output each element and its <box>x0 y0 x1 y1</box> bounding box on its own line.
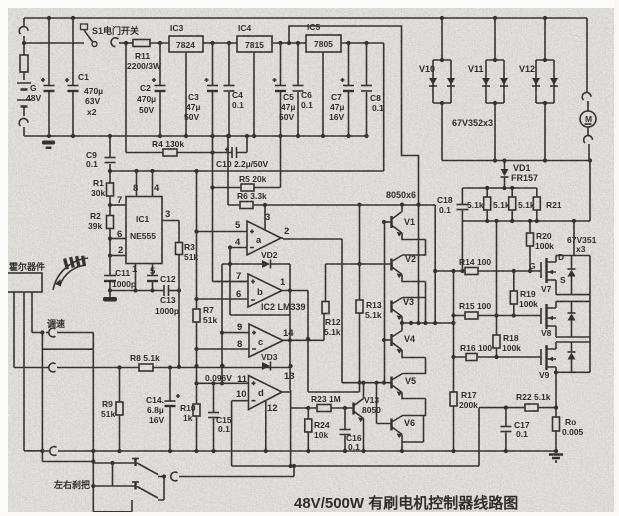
transistor V4 <box>393 323 403 337</box>
connector plug of S1 <box>111 38 118 47</box>
node dots on ground rail <box>47 134 51 138</box>
capacitor C15 0.1 column <box>213 383 215 451</box>
wire IC5 out 5V rail then down <box>341 42 384 44</box>
capacitor C16 0.1 column <box>344 408 346 451</box>
wire pin8 line <box>197 348 250 350</box>
wire comparator c output pin14 bus <box>283 314 324 341</box>
MOSFET V7 loop with body diode <box>556 256 590 295</box>
wire R8 throttle signal line <box>14 367 49 369</box>
resistor R20 100k <box>529 221 531 233</box>
transistor V5 <box>390 377 392 389</box>
page margins <box>0 0 8 516</box>
resistor R10 1k <box>193 404 200 416</box>
diode pair V10 <box>441 18 443 60</box>
resistor R6 3.3k line and riser <box>228 136 265 205</box>
diode VD3 <box>262 362 270 370</box>
capacitor C9 column <box>109 136 111 171</box>
node dots on top rail <box>47 16 51 20</box>
wire network feed down to gate line <box>461 221 463 271</box>
wire battery to lower plug <box>23 107 25 117</box>
capacitor C11 1000p <box>104 275 116 277</box>
wire V13 collector to driver bus <box>363 383 365 399</box>
connector plug bottom of battery <box>19 118 28 126</box>
wire battery positive column <box>23 18 25 80</box>
wire battery negative to ground rail <box>23 127 25 136</box>
comparator c of IC2 <box>249 324 283 357</box>
wire b feedback loop bottom <box>230 291 290 341</box>
wire left signal column x196 with R7 R10 <box>196 171 198 309</box>
wire comparator d plus line <box>197 382 249 384</box>
capacitor (C1 x2 first unit) column <box>48 18 50 136</box>
regulator IC4 7815 <box>237 36 272 52</box>
wire gate divider column x453 <box>453 271 455 392</box>
wire comparator a pin3 drop <box>264 205 266 230</box>
wire c d output tie column <box>289 340 291 390</box>
wire pin5 line <box>197 231 248 233</box>
wire center reference column x213 <box>212 136 214 282</box>
wire V5 emitter jog to V6 collector <box>393 393 426 422</box>
wire feedback column pin4 to VD2 line to loop <box>229 248 231 316</box>
wire R3 column down to VD3 line <box>178 291 180 367</box>
wire NE555 pin 1 <box>135 264 137 291</box>
resistor network top rail <box>462 187 536 189</box>
wire top +48V rail <box>24 17 587 19</box>
battery G 48V plates <box>17 83 31 100</box>
wire R1 to pin7 node <box>109 196 111 216</box>
wire speed node with plug loop <box>40 330 44 334</box>
capacitor C14 6.8u column <box>169 368 171 452</box>
ground blob below C11 <box>108 288 112 292</box>
capacitor C2 column <box>159 43 161 136</box>
switch S1 pull icon <box>81 24 88 30</box>
motor M <box>580 111 596 127</box>
comparator b of IC2 <box>248 274 282 307</box>
resistor 5.1k leg two <box>511 188 513 221</box>
wire Hall lead three to speed node <box>32 292 42 333</box>
wire driver base bus <box>342 382 392 384</box>
wire R2 to pin6 pin2 C11 <box>109 229 111 291</box>
connector plug above motor <box>582 92 591 100</box>
capacitor C6 column <box>297 43 299 136</box>
resistor R11 <box>133 40 150 47</box>
connector plug of brake <box>171 472 178 481</box>
resistor R19 100k column <box>513 271 515 291</box>
wire switched rail from battery <box>24 42 84 44</box>
capacitor C7 column <box>348 43 350 136</box>
wire b c output junction down to 392 <box>307 339 309 392</box>
wire left loop column x222 <box>221 264 223 383</box>
wire V4 emitter jog to V5 collector <box>393 350 426 380</box>
wire IC3 ground pin <box>185 52 187 136</box>
resistor R21 5.1k leg three <box>536 188 538 221</box>
wire comparator a output column to driver base bus <box>341 239 343 383</box>
wire VD2 line <box>222 264 290 291</box>
wire NE555 pin 8 and 4 <box>137 171 153 197</box>
wire NE555 pin 6 <box>110 238 126 240</box>
transistor V1 <box>390 216 392 228</box>
wire IC4 ground pin <box>253 52 255 136</box>
wire comparator a output pin2 to R13 column <box>281 238 342 239</box>
wire motor drain drop to first MOSFET loop <box>573 221 575 256</box>
connector plug of throttle <box>49 328 56 337</box>
comparator d of IC2 <box>249 376 283 410</box>
wire V1 emitter jog to V2 collector <box>393 233 426 261</box>
polarity mark <box>41 78 45 82</box>
resistor R18 100k column <box>496 221 498 335</box>
wire pin7 line <box>213 281 249 283</box>
resistor R22 5.1k <box>525 404 538 411</box>
transistor V6 <box>390 419 392 431</box>
wire V13 base line with R23 <box>291 407 354 409</box>
wire IC4 out to IC5 <box>272 42 306 44</box>
wire R4 line <box>126 152 232 154</box>
brake switch A <box>134 459 136 467</box>
resistor R4 130k feed column from switched rail <box>125 43 127 153</box>
comparator a of IC2 <box>247 221 281 255</box>
brake switch B <box>134 482 136 490</box>
diode VD2 <box>262 260 270 268</box>
wire motor feed from top rail <box>586 18 588 92</box>
transistor V3 <box>390 301 392 313</box>
resistor R1 30k <box>109 171 111 183</box>
wire ground bus rail <box>24 135 367 137</box>
wire comparator b plus input from column <box>213 281 249 283</box>
wire IC3 out to IC4 <box>203 42 237 44</box>
wire NE555 supply rail <box>110 170 384 172</box>
wire R3 down to C13 line <box>178 255 180 291</box>
wire NE555 pin 2 <box>110 255 126 257</box>
resistor R2 39k <box>107 216 114 229</box>
wire 5V column down to driver bus <box>383 43 385 171</box>
capacitor C10 series <box>232 147 237 158</box>
wire V9 gate line <box>454 356 542 358</box>
wire switch B feed <box>93 463 135 486</box>
wire pin9 line <box>222 332 249 334</box>
wire V2 emitter jog to V3 collector <box>393 275 426 324</box>
scan noise overlay <box>0 0 1 1</box>
polarity mark <box>65 78 69 82</box>
wire source bus down to R22 line <box>555 372 557 407</box>
wire comparator d output to V13 base line <box>282 390 291 466</box>
capacitor C1 column <box>72 18 74 136</box>
resistor Ro 0.005 shunt <box>555 408 557 417</box>
wire pin1 pin5 bottom bus <box>110 290 164 292</box>
connector plug top of battery <box>19 26 28 34</box>
switch S1 blade and pole <box>92 42 97 47</box>
wire V7 gate line <box>435 270 541 272</box>
regulator IC3 7824 <box>169 36 203 52</box>
wire pin10 loop down and right <box>232 401 479 466</box>
connector plug below motor <box>584 135 593 143</box>
resistor R24 10k column <box>307 408 309 419</box>
wire driver base column V1 V4 V5 <box>384 222 386 383</box>
regulator IC5 7805 <box>306 35 341 52</box>
transistor V2 <box>390 259 392 271</box>
wire R10 to ground line <box>196 416 198 451</box>
diode pair V11 <box>494 18 496 60</box>
wire main ground line <box>24 450 50 452</box>
wire NE555 pin 3 to R3 <box>162 221 179 243</box>
wire chain bus <box>402 322 454 324</box>
resistor R12 5.1k <box>322 302 329 314</box>
ground symbol at Ro <box>549 455 563 462</box>
resistor R15 100 <box>465 312 478 319</box>
fuse F <box>20 55 28 72</box>
resistor R7 51k <box>193 309 200 322</box>
wire pin6 line <box>197 298 249 300</box>
wire R13 bottom to driver bus <box>308 313 360 392</box>
wire comparator b output pin1 and loop <box>282 291 308 339</box>
wire speed column down <box>41 333 43 462</box>
wire Hall lead two to ground line <box>23 292 25 451</box>
capacitor C12 <box>147 275 158 277</box>
wire Hall lead one to throttle line <box>13 292 15 368</box>
wire pin12 to ground line <box>265 401 267 451</box>
wire long collector line to transistor chain <box>265 205 435 323</box>
wire V13 emitter to ground line <box>363 419 365 452</box>
ground symbol below rail left <box>42 141 55 145</box>
capacitor C17 0.1 column <box>505 408 507 451</box>
IC1 NE555 box <box>126 197 162 264</box>
MOSFET V8 loop with body diode <box>556 295 590 337</box>
capacitor C3 column <box>212 43 214 136</box>
wire R7 bottom down through VD3 line <box>196 322 198 404</box>
capacitor C8 column <box>366 43 368 136</box>
wire V6 emitter to ground with jog <box>402 416 424 452</box>
capacitor C13 1000p series <box>164 285 169 296</box>
wire V8 gate line <box>454 315 542 317</box>
wire IC5 ground pin <box>322 52 324 136</box>
resistor network bottom rail extended to motor column <box>462 220 590 222</box>
capacitor C18 leg <box>461 188 463 221</box>
wire brake feed line <box>42 462 135 464</box>
resistor 5.1k leg one <box>486 188 488 221</box>
resistor R14 100 <box>465 268 478 275</box>
Hall sensor box <box>6 273 42 292</box>
wire pin4 line <box>230 247 247 249</box>
diode VD1 FR157 <box>504 161 506 170</box>
resistor R8 5.1k <box>139 364 153 371</box>
resistor R17 200k <box>450 392 457 406</box>
connector plug on ground line <box>50 447 57 456</box>
connector plug on R8 line <box>49 363 56 372</box>
capacitor C4 column <box>228 43 230 136</box>
wire R11 to IC3 <box>150 42 169 44</box>
throttle pot arc <box>53 258 88 290</box>
wire R22 line <box>479 407 556 409</box>
wire bottom return of brake <box>93 500 132 512</box>
wire mid column down from throttle loop <box>92 349 94 512</box>
wire V3 emitter to chain bus <box>401 317 403 324</box>
resistor R9 51k column <box>119 368 121 403</box>
diode pair V12 <box>544 18 546 60</box>
capacitor C5 column <box>280 43 282 136</box>
MOSFET V7 <box>540 262 542 278</box>
transistor V13 8050 <box>352 403 354 415</box>
wire S1 to R11 <box>119 42 133 44</box>
resistor R4 <box>163 149 177 156</box>
MOSFET V8 <box>540 308 542 324</box>
wire motor to lower rail and to MOSFET drain bus <box>589 144 590 221</box>
resistor R3 51k <box>176 243 183 255</box>
resistor R23 1M <box>317 405 331 412</box>
MOSFET V9 <box>540 349 542 365</box>
wire lower rail of diode pairs <box>442 160 590 162</box>
resistor R5 20k line and riser <box>213 136 281 188</box>
resistor R16 100 <box>466 354 477 361</box>
wire R12 top to V2 base line <box>326 264 392 302</box>
resistor R13 5.1k column <box>359 205 361 300</box>
wire NE555 pin 5 and C12 <box>152 264 154 291</box>
wire NE555 pin 7 <box>110 204 126 206</box>
wire 15V takeover going over IC5 then down <box>289 26 419 323</box>
wire C10 right riser to ground rail <box>237 136 248 153</box>
MOSFET V9 loop with body diode <box>556 337 590 372</box>
